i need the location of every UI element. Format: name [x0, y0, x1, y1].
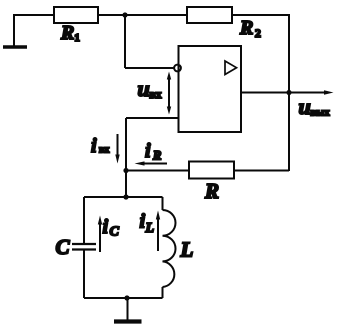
node B junction	[123, 168, 128, 173]
svg-text:вых: вых	[311, 108, 331, 119]
svg-text:L: L	[180, 238, 194, 262]
wire tank right lower	[162, 287, 164, 298]
inductor L	[163, 210, 176, 287]
u_vx measurement arrow	[167, 72, 171, 115]
resistor R2	[187, 7, 232, 23]
svg-text:R2: R2	[239, 17, 261, 40]
wire R2 to right rail	[232, 14, 289, 16]
op-amp U1 triangle symbol	[225, 61, 237, 75]
ground GND2 bottom	[114, 298, 142, 322]
wire tank left upper	[83, 197, 85, 244]
resistor R1	[54, 7, 98, 23]
svg-text:C: C	[110, 225, 120, 240]
wire node A to R2	[125, 14, 187, 16]
svg-text:u: u	[299, 94, 311, 119]
svg-text:R: R	[204, 179, 219, 203]
svg-text:вх: вх	[99, 145, 109, 156]
svg-text:вх: вх	[150, 89, 162, 101]
wire R to right rail	[234, 170, 289, 172]
svg-text:i: i	[91, 135, 97, 157]
i_R current arrow	[135, 161, 168, 165]
wire node A down	[124, 15, 126, 68]
svg-text:L: L	[145, 221, 155, 236]
svg-text:C: C	[56, 235, 71, 259]
wire tank right upper	[162, 197, 164, 210]
wire inverting column down	[125, 118, 127, 171]
op-amp U1 input circle	[174, 65, 181, 72]
u_vyx output arrow	[289, 90, 334, 95]
i_C current arrow	[98, 216, 102, 253]
wire op-amp output	[241, 92, 289, 94]
svg-text:i: i	[103, 216, 109, 238]
svg-text:R1: R1	[60, 22, 80, 44]
node C junction on output	[286, 90, 291, 95]
node E junction tank bottom	[124, 295, 129, 300]
op-amp U1 body	[179, 46, 242, 132]
wire tank top	[84, 196, 163, 198]
wire tank left lower	[83, 250, 85, 299]
wire to op-amp noninverting input	[125, 67, 174, 69]
wire inverting input	[126, 117, 179, 119]
resistor R	[189, 162, 234, 179]
i_L current arrow	[156, 211, 160, 252]
node D junction tank top	[123, 194, 128, 199]
wire tank bottom	[84, 297, 163, 299]
i_vx current arrow	[115, 134, 119, 164]
ground GND1 top-left	[3, 15, 27, 47]
wire right rail vertical	[288, 14, 290, 171]
capacitor C	[72, 244, 96, 250]
svg-text:i: i	[145, 140, 151, 162]
node A junction	[122, 12, 127, 17]
wire R1 to node A	[98, 14, 125, 16]
wire left rail to R1	[13, 14, 54, 16]
svg-text:u: u	[138, 76, 150, 101]
svg-text:R: R	[152, 149, 161, 163]
wire node B to tank	[125, 171, 127, 198]
wire node B to R	[126, 170, 189, 172]
